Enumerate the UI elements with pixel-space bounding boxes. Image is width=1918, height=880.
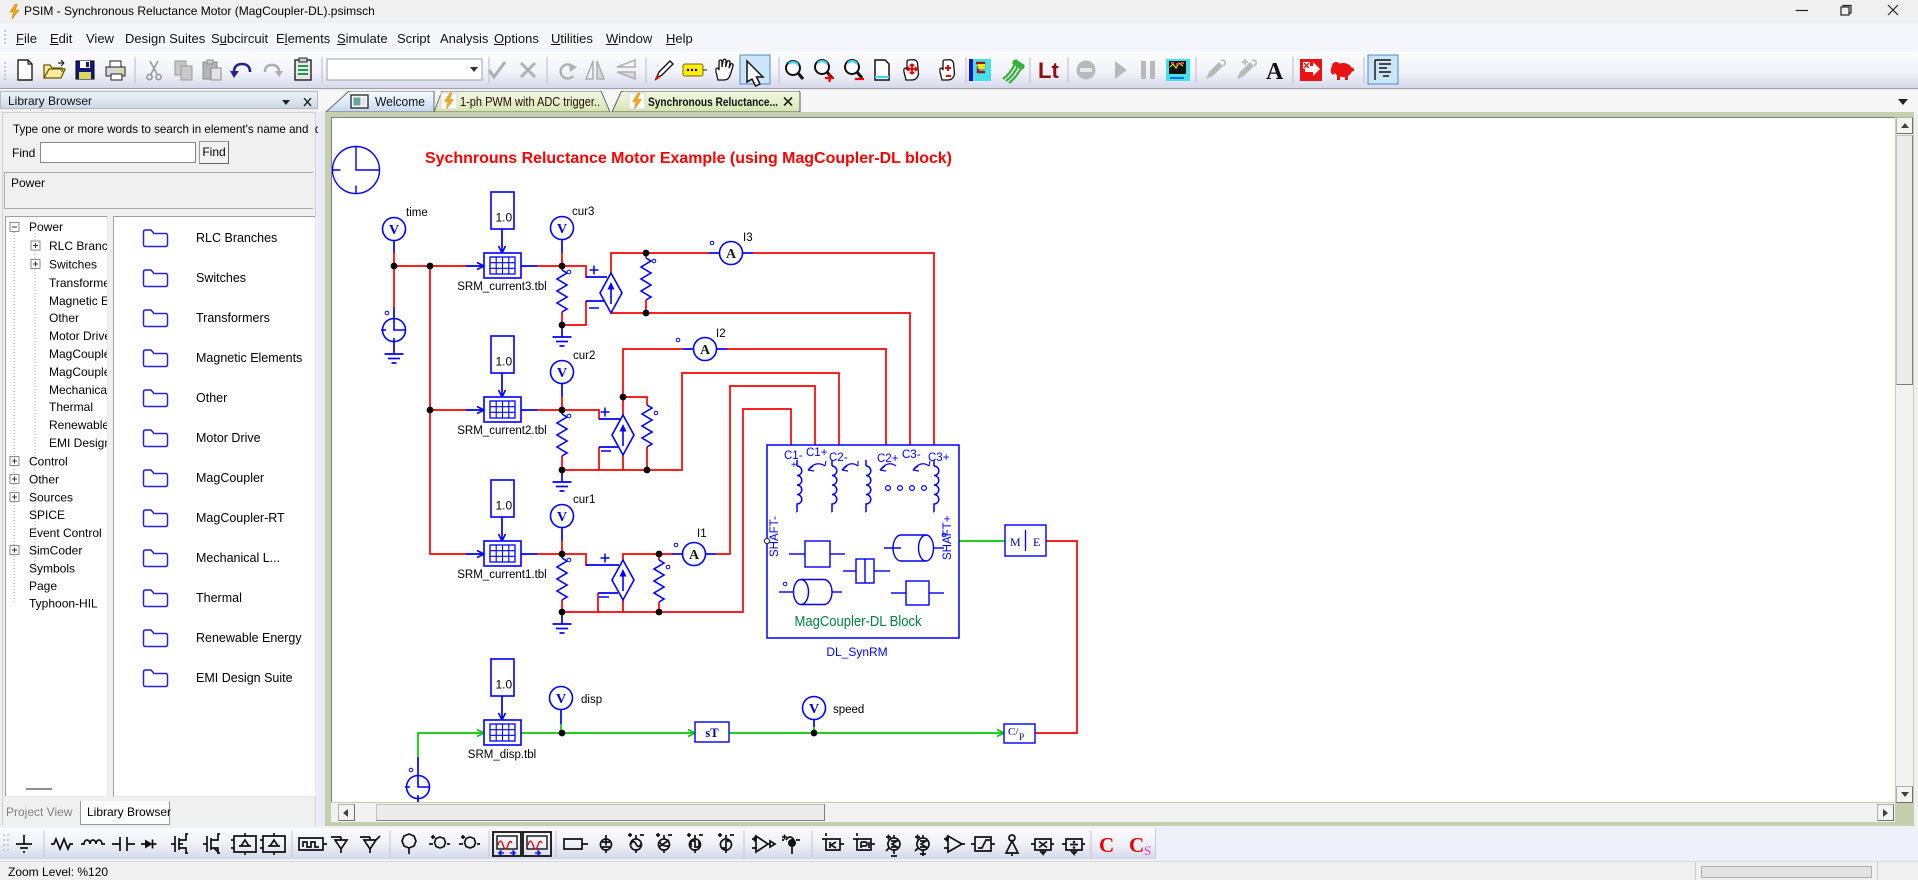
svg-text:+: + <box>791 460 797 471</box>
svg-text:Event Control: Event Control <box>29 526 102 540</box>
svg-text:SRM_current3.tbl: SRM_current3.tbl <box>457 281 546 293</box>
svg-text:C3-: C3- <box>902 449 921 461</box>
svg-text:Mechanical L...: Mechanical L... <box>196 551 280 565</box>
svg-text:cur2: cur2 <box>573 350 595 362</box>
svg-text:RLC Branches: RLC Branches <box>196 231 277 245</box>
svg-text:S: S <box>1144 843 1151 858</box>
svg-text:E: E <box>1033 535 1040 549</box>
svg-text:cur1: cur1 <box>573 494 595 506</box>
svg-text:Other: Other <box>29 473 59 487</box>
svg-text:SRM_disp.tbl: SRM_disp.tbl <box>468 749 536 761</box>
svg-text:Mechanical: Mechanical <box>49 383 107 397</box>
svg-text:M: M <box>1010 535 1021 549</box>
svg-text:Synchronous Reluctance...: Synchronous Reluctance... <box>648 95 778 109</box>
svg-text:Sychnrouns Reluctance Motor Ex: Sychnrouns Reluctance Motor Example (usi… <box>425 150 952 167</box>
svg-text:C: C <box>1099 833 1114 857</box>
svg-text:Magnetic E: Magnetic E <box>49 294 107 308</box>
svg-text:MagCoupler-DL Block: MagCoupler-DL Block <box>795 613 922 630</box>
svg-text:time: time <box>406 207 428 219</box>
svg-text:Control: Control <box>29 455 68 469</box>
svg-text:Thermal: Thermal <box>49 400 93 414</box>
svg-text:SRM_current2.tbl: SRM_current2.tbl <box>457 425 546 437</box>
svg-text:C1+: C1+ <box>806 447 828 459</box>
svg-text:I1: I1 <box>697 528 707 540</box>
svg-text:speed: speed <box>833 704 864 716</box>
svg-text:Welcome: Welcome <box>375 95 425 109</box>
svg-text:Other: Other <box>196 391 227 405</box>
svg-text:Sources: Sources <box>29 491 73 505</box>
svg-text:1-ph PWM with ADC trigger..: 1-ph PWM with ADC trigger.. <box>460 95 600 109</box>
svg-text:RLC Branch: RLC Branch <box>49 239 107 253</box>
svg-text:Other: Other <box>49 311 79 325</box>
svg-text:SPICE: SPICE <box>29 508 65 522</box>
svg-text:MagCouple: MagCouple <box>49 365 107 379</box>
svg-text:Typhoon-HIL: Typhoon-HIL <box>29 597 98 611</box>
svg-text:Symbols: Symbols <box>29 562 75 576</box>
svg-text:MagCoupler: MagCoupler <box>196 471 264 485</box>
svg-text:Power: Power <box>29 220 63 234</box>
svg-text:DL_SynRM: DL_SynRM <box>826 645 887 659</box>
svg-text:C/: C/ <box>1008 726 1019 738</box>
svg-text:C2+: C2+ <box>877 453 899 465</box>
svg-text:C3+: C3+ <box>928 452 950 464</box>
svg-text:Switches: Switches <box>196 271 246 285</box>
svg-text:Magnetic Elements: Magnetic Elements <box>196 351 302 365</box>
svg-text:SimCoder: SimCoder <box>29 544 82 558</box>
svg-text:C: C <box>1129 833 1144 857</box>
svg-text:MagCouple: MagCouple <box>49 347 107 361</box>
svg-text:Thermal: Thermal <box>196 591 242 605</box>
svg-text:SHAFT+: SHAFT+ <box>942 515 954 560</box>
svg-text:disp: disp <box>581 694 602 706</box>
svg-text:I2: I2 <box>716 328 726 340</box>
svg-text:I3: I3 <box>743 232 753 244</box>
svg-text:EMI Design: EMI Design <box>49 436 107 450</box>
svg-text:A: A <box>1266 59 1284 85</box>
svg-text:MagCoupler-RT: MagCoupler-RT <box>196 511 285 525</box>
svg-text:P: P <box>1019 733 1024 743</box>
svg-text:Transforme: Transforme <box>49 276 107 290</box>
svg-text:Renewable: Renewable <box>49 418 107 432</box>
svg-text:sT: sT <box>705 726 719 740</box>
svg-text:Lt: Lt <box>1038 58 1059 83</box>
svg-text:Page: Page <box>29 579 57 593</box>
svg-text:Motor Drive: Motor Drive <box>196 431 261 445</box>
svg-text:Transformers: Transformers <box>196 311 270 325</box>
svg-text:Motor Drive: Motor Drive <box>49 329 107 343</box>
svg-text:SRM_current1.tbl: SRM_current1.tbl <box>457 569 546 581</box>
svg-text:EMI Design Suite: EMI Design Suite <box>196 671 293 685</box>
svg-text:SHAFT-: SHAFT- <box>769 516 781 557</box>
svg-text:Switches: Switches <box>49 258 97 272</box>
svg-text:cur3: cur3 <box>572 206 594 218</box>
svg-text:Renewable Energy: Renewable Energy <box>196 631 302 645</box>
